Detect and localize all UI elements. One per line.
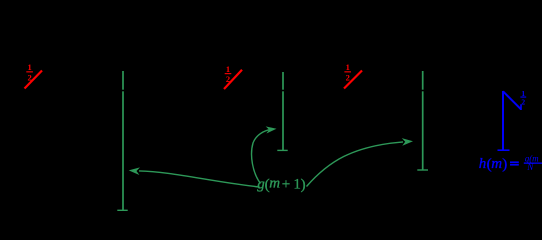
wire: blue end tick [520,104,522,110]
svg-text:2: 2 [27,72,31,82]
node: red fraction 1/2 label 2 [225,64,232,84]
node: red fraction 1/2 label 3 [344,62,351,82]
svg-text:): ) [502,157,507,173]
wire: red slash 2 [224,70,242,89]
svg-text:): ) [301,177,306,193]
svg-text:1: 1 [27,62,31,72]
wire: red slash 1 [25,71,43,89]
svg-text:2: 2 [226,74,230,84]
wire: curved arrow to spike 2 [252,129,271,183]
svg-text:2: 2 [521,97,525,106]
wire: blue spike with base tick [498,91,510,150]
svg-text:+: + [282,177,290,193]
node: blue label h(m) = g(m)/N [479,154,542,173]
svg-text:h: h [479,156,487,172]
node gaps: black baseline crossing spikes [121,90,425,92]
svg-text:m: m [269,176,280,192]
wire: curved arrow to spike 3 [307,142,404,187]
wire: green spike 1 [117,71,127,210]
svg-text:1: 1 [226,64,230,74]
node: blue fraction 1/2 label [520,89,526,107]
wire: red slash 3 [344,71,362,89]
node: red fraction 1/2 label 1 [26,62,33,82]
svg-text:N: N [526,162,534,172]
wire: green spike 3 [417,71,428,170]
wire: arrow to spike 1 [139,171,260,187]
wire: blue slope segment [503,91,521,109]
svg-text:m: m [491,156,502,172]
svg-text:2: 2 [346,72,350,82]
node: green label g(m+1) [257,176,305,194]
svg-text:1: 1 [346,62,350,72]
wire: green spike 2 [277,72,287,150]
